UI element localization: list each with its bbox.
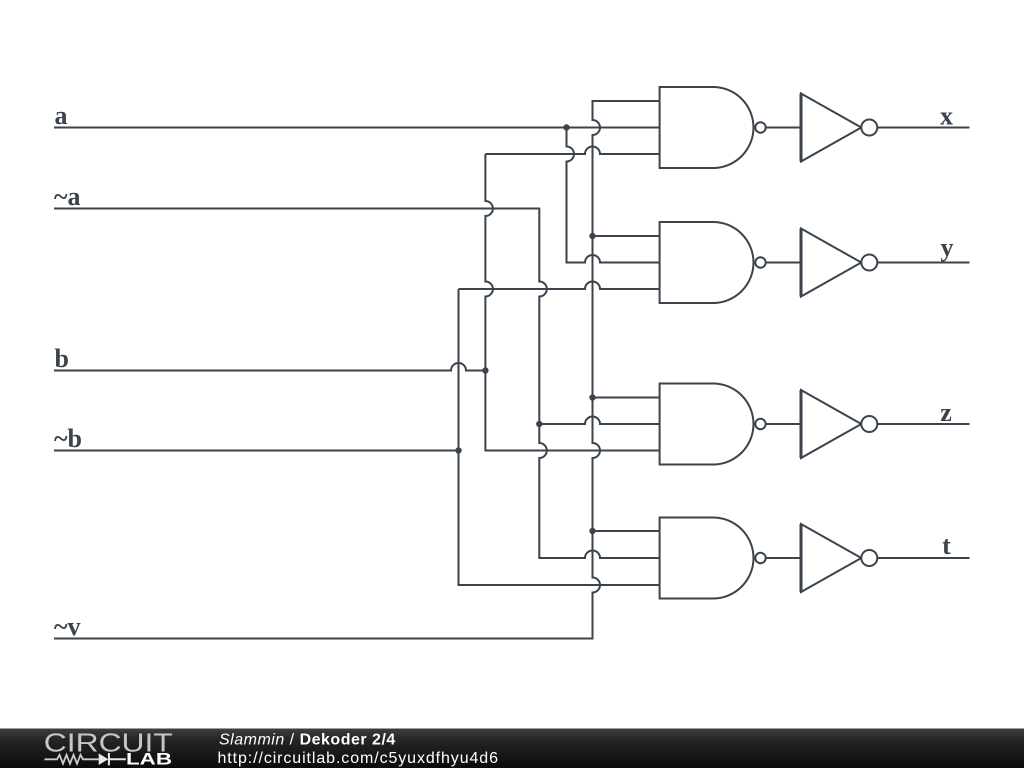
svg-text:~b: ~b bbox=[54, 424, 82, 453]
inverter U7 body bbox=[801, 390, 861, 458]
wire gate4 output to inverter bbox=[766, 557, 801, 559]
wire ~v + riser V2 (~v) up to gate1 input1, hops right over a, g3i3, g4i3 bbox=[54, 101, 660, 639]
svg-text:b: b bbox=[55, 344, 69, 373]
junction V2/gate4 input1 bbox=[589, 528, 595, 534]
nand gate U2 body bbox=[660, 222, 754, 303]
nand gate U3 body bbox=[660, 384, 754, 465]
svg-text:LAB: LAB bbox=[126, 751, 172, 768]
junction b/V3 bbox=[482, 367, 488, 373]
wire inverter2 output y bbox=[877, 262, 969, 264]
wire ~b bbox=[54, 450, 459, 452]
nand gate U1 bubble bbox=[755, 122, 765, 132]
wire inverter1 output x bbox=[877, 127, 969, 129]
svg-text:~a: ~a bbox=[54, 182, 81, 211]
junction V2/gate3 input1 bbox=[589, 394, 595, 400]
inverter U8 left edge emphasis bbox=[800, 524, 803, 592]
svg-text:~v: ~v bbox=[54, 612, 81, 641]
nand gate U3 bubble bbox=[755, 419, 765, 429]
svg-text:y: y bbox=[941, 233, 954, 262]
svg-text:http://circuitlab.com/c5yuxdfh: http://circuitlab.com/c5yuxdfhyu4d6 bbox=[218, 750, 499, 767]
inverter U6 left edge emphasis bbox=[800, 229, 803, 297]
junction V2/gate2 input1 bbox=[589, 233, 595, 239]
inverter U7 left edge emphasis bbox=[800, 390, 803, 458]
inverter U5 body bbox=[801, 94, 861, 162]
nand gate U4 bubble bbox=[755, 553, 765, 563]
inverter U7 bubble bbox=[861, 416, 877, 432]
junction a/V1 bbox=[563, 124, 569, 130]
wire gate1 input3 (b net, hops up over V2) bbox=[485, 147, 659, 154]
wire gate4 input1 (~v) bbox=[593, 530, 660, 532]
svg-text:Slammin / Dekoder 2/4: Slammin / Dekoder 2/4 bbox=[219, 732, 396, 749]
logo diode symbol bbox=[99, 753, 109, 765]
wire gate2 input1 (~v) bbox=[593, 235, 660, 237]
nand gate U4 body bbox=[660, 518, 754, 599]
nand gate U2 bubble bbox=[755, 257, 765, 267]
wire riser V5 (~b) corner to gate4 input3 bbox=[459, 289, 660, 585]
wire gate2 output to inverter bbox=[766, 262, 801, 264]
logo resistor zigzag bbox=[45, 755, 99, 764]
inverter U8 bubble bbox=[861, 550, 877, 566]
wire gate1 output to inverter bbox=[766, 127, 801, 129]
wire ~a + riser V4 (~a) + gate4 input2 wire with hops bbox=[54, 209, 660, 559]
wire inverter4 output t bbox=[877, 557, 969, 559]
wire gate3 input2 (~a net, hops up over V2) bbox=[539, 417, 659, 424]
footer bar bbox=[0, 729, 1024, 768]
svg-text:a: a bbox=[55, 101, 68, 130]
inverter U5 left edge emphasis bbox=[800, 94, 803, 162]
junction ~b/V5 bbox=[455, 447, 461, 453]
inverter U5 bubble bbox=[861, 120, 877, 136]
nand gate U1 body bbox=[660, 87, 754, 168]
wire inverter3 output z bbox=[877, 423, 969, 425]
wire riser V3 (b) hops over ~a and g2i3, corner to gate3 input3 bbox=[485, 154, 659, 451]
wire riser V1 (a branch) + gate2 input2, V1 hops over g1i3, hop up over V2 bbox=[567, 128, 660, 263]
inverter U8 body bbox=[801, 524, 861, 592]
wire gate3 output to inverter bbox=[766, 423, 801, 425]
wire b (hops over V5) bbox=[54, 363, 485, 371]
wire a (horizontal input a, y=127.5) bbox=[54, 127, 660, 129]
wire gate3 input1 (~v) bbox=[593, 397, 660, 399]
svg-text:z: z bbox=[940, 398, 952, 427]
svg-text:t: t bbox=[942, 531, 951, 560]
svg-text:x: x bbox=[940, 102, 953, 131]
junction V4/gate3 input2 bbox=[536, 421, 542, 427]
inverter U6 bubble bbox=[861, 255, 877, 271]
wire gate2 input3 (~b net, hops up over V2) bbox=[459, 282, 660, 289]
inverter U6 body bbox=[801, 229, 861, 297]
